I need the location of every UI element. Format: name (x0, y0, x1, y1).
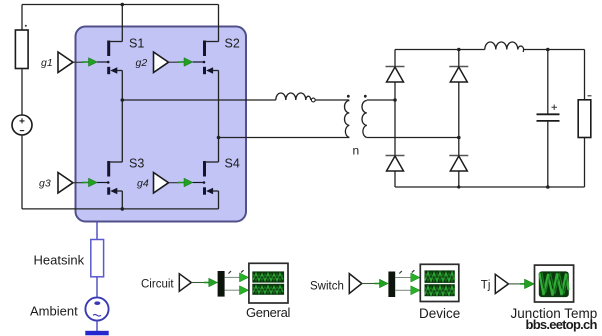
svg-text:S4: S4 (225, 157, 240, 171)
gate driver g4 (137, 173, 180, 194)
wire source top lead (21, 5, 23, 31)
signal outport Tj (495, 274, 508, 293)
signal arrow (240, 273, 249, 282)
MOSFET S4 (193, 157, 240, 195)
gate driver g2 (136, 52, 180, 73)
terminal circle (311, 98, 315, 102)
diode D3 (386, 156, 405, 172)
transformer primary winding (345, 101, 350, 138)
thermal resistor Heatsink (91, 240, 104, 277)
wire (21, 135, 23, 209)
svg-text:g3: g3 (39, 178, 51, 190)
svg-text:General: General (246, 305, 291, 320)
signal wire (225, 276, 240, 278)
diode D1 (386, 67, 405, 83)
svg-text:S1: S1 (129, 37, 144, 51)
signal outport Switch (349, 274, 362, 294)
signal wire (395, 277, 411, 279)
wire L1 to primary (315, 99, 349, 101)
tick marks (229, 270, 244, 273)
wire (524, 49, 585, 51)
thermal wire (96, 277, 98, 298)
wire S3 source column (121, 191, 123, 209)
junction (121, 3, 125, 7)
junction (393, 98, 397, 102)
wire node A to L1 (122, 99, 275, 101)
subsystem box H-bridge (76, 27, 247, 222)
wire S2 drain column (218, 5, 220, 42)
wire bridge right column (458, 50, 460, 188)
junction node B (217, 136, 221, 140)
wire secondary bottom to bridge (367, 137, 459, 139)
capacitor C1 (537, 50, 560, 188)
wire S1 drain column (121, 5, 123, 42)
thermal ground (85, 331, 108, 336)
svg-text:Device: Device (419, 306, 460, 321)
svg-text:S2: S2 (225, 37, 240, 51)
gate signal arrow g3 (82, 178, 97, 187)
MOSFET S1 (97, 37, 145, 75)
signal outport Circuit (179, 274, 191, 292)
signal arrow (411, 273, 420, 282)
gate signal arrow g4 (178, 178, 193, 187)
wire top rail (22, 4, 219, 6)
wire S4 source column (218, 191, 220, 209)
svg-text:g2: g2 (136, 57, 148, 69)
thermal wire (96, 222, 98, 240)
signal arrow (204, 278, 218, 287)
MOSFET S2 (193, 37, 240, 75)
wire DC+ rail (395, 49, 485, 51)
inductor L1 (276, 93, 311, 100)
scope Junction Temp (535, 265, 574, 302)
wire S1-S3 midpoint column (121, 71, 123, 163)
multiplexer (218, 271, 225, 297)
gate driver g1 (41, 52, 84, 73)
polarity dot primary (347, 95, 350, 98)
voltage source Vdc (12, 115, 32, 135)
junction node A (121, 98, 125, 102)
diode D4 (449, 156, 468, 172)
wire node B to primary bottom (219, 137, 350, 139)
svg-text:Tj: Tj (481, 280, 491, 292)
wire bridge left column (394, 50, 396, 188)
polarity dot secondary (364, 95, 367, 98)
wire S2-S4 midpoint column (218, 71, 220, 163)
svg-text:bbs.eetop.ch: bbs.eetop.ch (526, 317, 598, 332)
scope Device (420, 264, 459, 301)
MOSFET S3 (97, 157, 145, 195)
svg-text:g4: g4 (137, 178, 149, 190)
svg-text:Heatsink: Heatsink (34, 253, 85, 268)
inductor L2 (485, 42, 524, 52)
junction (546, 185, 550, 189)
svg-text:Switch: Switch (310, 281, 344, 293)
signal arrow (375, 279, 389, 288)
resistor Rdc (15, 30, 28, 69)
svg-text:n: n (353, 144, 360, 158)
wire (21, 69, 23, 116)
wire bottom source rail (22, 208, 219, 210)
signal arrow (411, 286, 420, 295)
junction (121, 207, 125, 211)
svg-text:g1: g1 (41, 57, 53, 69)
signal wire (362, 283, 377, 285)
temperature source Ambient (85, 297, 108, 320)
gate driver g3 (39, 173, 84, 194)
transformer secondary winding (362, 101, 367, 138)
diode D2 (449, 67, 468, 83)
polarity mark (25, 25, 27, 27)
signal wire (395, 289, 411, 291)
tick marks (399, 270, 414, 273)
signal wire (225, 289, 240, 291)
signal arrow (520, 279, 534, 289)
thermal wire (96, 321, 98, 331)
scope General (249, 263, 288, 303)
signal arrow (240, 286, 249, 295)
junction (457, 136, 461, 140)
wire DC- rail (395, 186, 585, 188)
junction (457, 185, 460, 188)
resistor Rload (578, 50, 591, 188)
gate signal arrow g1 (82, 58, 97, 67)
junction (457, 48, 461, 52)
svg-text:Circuit: Circuit (141, 279, 174, 291)
svg-text:Ambient: Ambient (30, 304, 78, 319)
wire secondary top to bridge (367, 99, 395, 101)
signal wire (191, 282, 206, 284)
multiplexer (388, 272, 395, 298)
junction (546, 48, 550, 52)
svg-text:S3: S3 (129, 157, 144, 171)
gate signal arrow g2 (178, 58, 193, 67)
signal wire (509, 283, 524, 285)
